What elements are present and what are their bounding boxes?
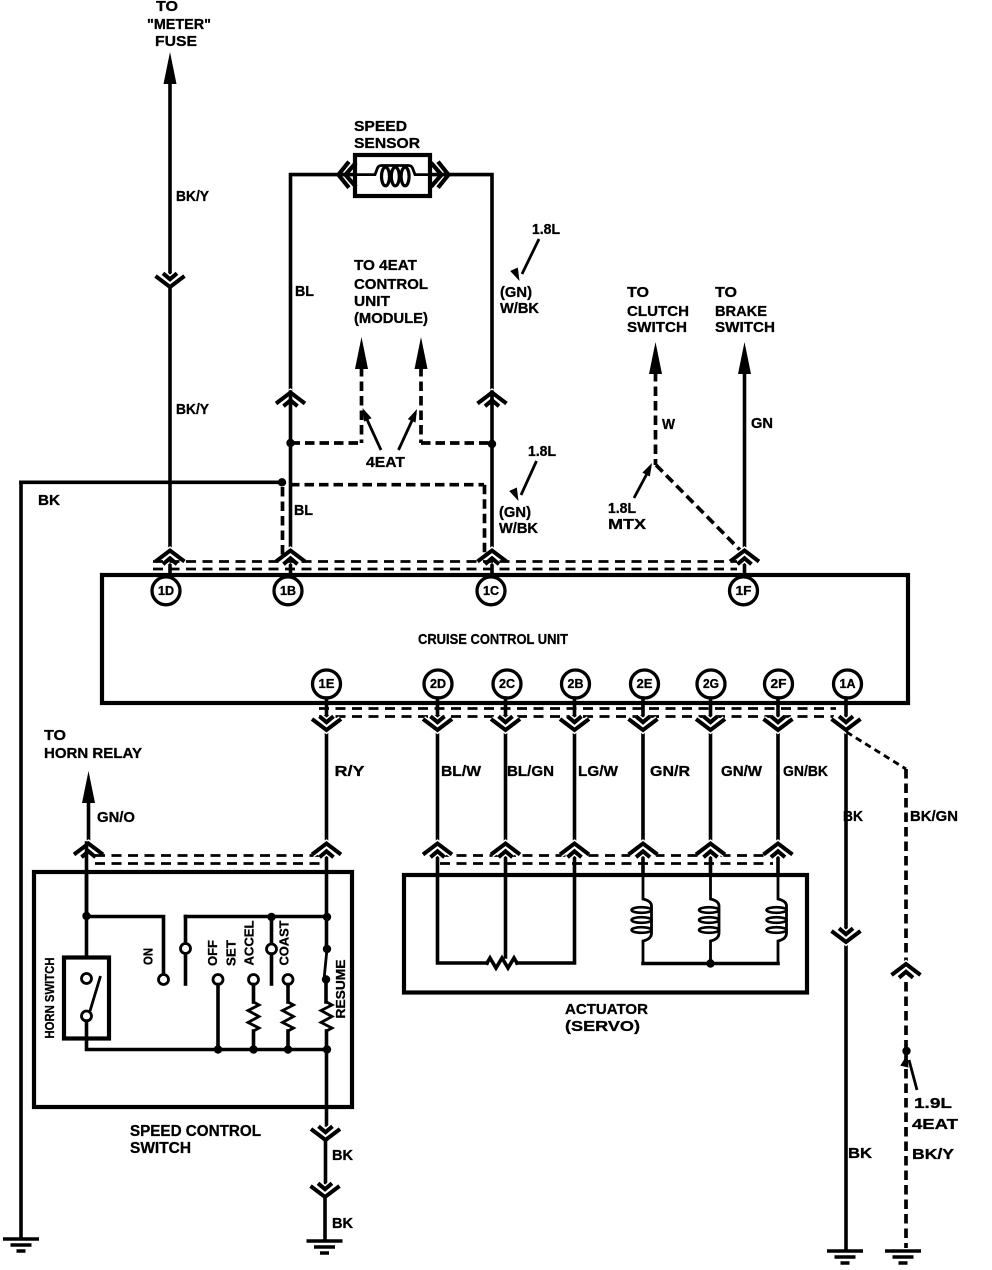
wire GN — [743, 372, 747, 576]
leader arrow MTX — [634, 461, 656, 498]
svg-text:1D: 1D — [158, 584, 174, 598]
value label BL lower — [294, 502, 313, 519]
svg-text:BL/W: BL/W — [441, 763, 482, 780]
value label GN/W — [721, 763, 763, 780]
svg-text:BK/Y: BK/Y — [176, 188, 209, 205]
contact COAST — [283, 975, 293, 985]
svg-text:2G: 2G — [703, 677, 719, 691]
wire horn into switch box — [85, 843, 89, 916]
pin 2D — [424, 670, 452, 698]
value label BK right — [843, 808, 863, 825]
connector chevron up GN/R — [629, 844, 658, 858]
solenoid coil 1 — [632, 875, 652, 964]
resistor RESUME — [321, 980, 332, 1050]
svg-text:HORN SWITCH: HORN SWITCH — [42, 958, 57, 1039]
svg-text:(SERVO): (SERVO) — [565, 1018, 640, 1035]
wire BL lower to pin 1B — [289, 392, 293, 576]
svg-text:ON: ON — [141, 948, 156, 965]
leader arrow 1.8L lower — [509, 461, 536, 503]
dashed harness top horizontal — [290, 483, 484, 487]
label CRUISE CONTROL UNIT — [418, 631, 568, 648]
connector chevron up horn — [74, 844, 103, 858]
value label BK 2 — [332, 1215, 353, 1232]
connector chevron up at pin 1C — [478, 551, 507, 565]
label SPEED SENSOR — [354, 118, 420, 152]
wire BK out of switch box — [325, 1050, 329, 1126]
label SPEED CONTROL SWITCH — [130, 1123, 261, 1157]
svg-text:ACCEL: ACCEL — [242, 920, 257, 965]
svg-text:TO: TO — [44, 727, 66, 744]
label COAST — [277, 920, 292, 965]
svg-text:1.8L: 1.8L — [532, 221, 560, 238]
svg-text:(MODULE): (MODULE) — [354, 310, 428, 327]
resistor potentiometer — [487, 958, 517, 968]
wire LG/W — [573, 698, 577, 875]
svg-text:GN/BK: GN/BK — [783, 763, 828, 780]
value label GN/O — [97, 809, 135, 826]
svg-text:BK/Y: BK/Y — [176, 401, 209, 418]
dashed wire W — [656, 372, 742, 551]
connector chevron down on BK/Y wire — [156, 273, 185, 287]
value label GN/R — [650, 763, 690, 780]
svg-text:TO: TO — [715, 284, 737, 301]
svg-text:TO: TO — [156, 0, 178, 15]
svg-text:SPEED CONTROL: SPEED CONTROL — [130, 1123, 261, 1140]
connector chevron up GN/W — [696, 844, 725, 858]
svg-text:1C: 1C — [483, 584, 499, 598]
svg-text:BK/Y: BK/Y — [912, 1146, 954, 1163]
svg-text:COAST: COAST — [277, 920, 292, 965]
wire OFF to bus — [216, 985, 220, 1050]
connector chevron up at pin 1D — [156, 551, 185, 565]
junction solenoid bus — [706, 959, 714, 967]
svg-text:BK: BK — [848, 1145, 872, 1162]
leader arrow 1.8L upper — [510, 239, 539, 283]
svg-text:ACTUATOR: ACTUATOR — [565, 1001, 648, 1018]
junction bus RESUME — [323, 1045, 331, 1053]
ground BK/GN — [885, 1251, 921, 1263]
harness dashed band below cruise unit — [319, 709, 836, 717]
svg-text:SET: SET — [224, 940, 239, 966]
wire BK right — [844, 698, 848, 1250]
contact ACCEL — [267, 917, 277, 984]
value label BL left wire — [295, 283, 314, 300]
svg-text:GN/R: GN/R — [650, 763, 690, 780]
value label BK/Y — [176, 188, 209, 205]
svg-text:CONTROL: CONTROL — [354, 276, 428, 293]
svg-text:(GN): (GN) — [500, 284, 532, 301]
svg-text:1F: 1F — [736, 584, 752, 598]
label TO HORN RELAY — [44, 727, 142, 762]
label BK left — [38, 492, 60, 509]
svg-text:OFF: OFF — [205, 940, 220, 966]
harness dashed band above actuator — [440, 856, 773, 864]
junction ACCEL top — [267, 913, 275, 921]
pin 2B — [562, 670, 590, 698]
wire 2D inside — [438, 875, 488, 963]
pin 2C — [493, 670, 521, 698]
value label GN/BK — [783, 763, 828, 780]
svg-text:BL: BL — [295, 283, 314, 300]
pin 2F — [765, 670, 793, 698]
resume switch contacts — [322, 945, 331, 984]
solenoid coil 2 — [699, 875, 719, 964]
arrowhead to clutch switch — [649, 342, 662, 374]
svg-text:SWITCH: SWITCH — [715, 319, 775, 336]
svg-text:R/Y: R/Y — [335, 763, 365, 780]
label RESUME — [333, 959, 348, 1018]
svg-text:1.8L: 1.8L — [608, 500, 636, 517]
ground left — [3, 1239, 39, 1251]
junction on BK/GN — [902, 1047, 910, 1055]
value label LG/W — [578, 763, 619, 780]
dashed diagonal from 1A — [847, 732, 907, 769]
connector chevron down pin 2B — [560, 716, 589, 730]
wiper contact — [181, 917, 191, 985]
svg-text:2D: 2D — [430, 677, 446, 691]
value label BL/W — [441, 763, 482, 780]
wire GN/W — [709, 698, 713, 875]
wire BK mid — [324, 1140, 328, 1183]
connector chevron left of sensor — [338, 162, 356, 188]
svg-text:BRAKE: BRAKE — [715, 303, 767, 320]
horn switch box — [64, 958, 109, 1039]
svg-text:W/BK: W/BK — [500, 300, 539, 317]
harness dashed band top — [153, 562, 737, 570]
connector chevron up LG/W — [560, 844, 589, 858]
connector chevron right of sensor — [431, 162, 449, 188]
label 1.8L lower — [528, 443, 556, 460]
label TO "METER" FUSE — [147, 0, 211, 50]
label (GN) W/BK lower — [499, 504, 538, 537]
svg-text:CLUTCH: CLUTCH — [627, 303, 689, 320]
svg-text:MTX: MTX — [608, 516, 646, 533]
svg-text:"METER": "METER" — [147, 16, 211, 33]
connector chevron up on BK/GN — [892, 964, 921, 978]
svg-text:SWITCH: SWITCH — [130, 1140, 191, 1157]
dashed wire 4EAT horizontal left — [291, 441, 362, 445]
wire BK to ground — [323, 1197, 327, 1240]
resistor SET — [248, 985, 259, 1050]
arrowhead 4EAT right — [415, 337, 428, 369]
dashed wire 4EAT left — [360, 367, 364, 443]
connector chevron up at pin 1F — [730, 551, 759, 565]
svg-text:1B: 1B — [280, 584, 296, 598]
svg-text:SPEED: SPEED — [354, 118, 407, 135]
resistor COAST — [283, 985, 294, 1050]
leader arrow 4EAT left — [359, 406, 381, 450]
wire horn to bus — [87, 1021, 328, 1050]
dashed wire 4EAT right — [419, 367, 423, 443]
svg-text:(GN): (GN) — [499, 504, 531, 521]
svg-text:1A: 1A — [840, 677, 856, 691]
label HORN SWITCH — [42, 958, 57, 1039]
wire W/BK lower to pin 1C — [490, 392, 494, 576]
svg-text:FUSE: FUSE — [155, 33, 197, 50]
svg-text:SENSOR: SENSOR — [354, 135, 420, 152]
svg-text:1.9L: 1.9L — [914, 1095, 952, 1112]
wire sensor left top — [291, 175, 356, 390]
junction bus SET — [249, 1045, 257, 1053]
value label BK/Y — [176, 401, 209, 418]
connector chevron up on BL wire — [276, 393, 305, 407]
pin 1D — [152, 576, 180, 605]
label 1.8L MTX — [608, 500, 646, 533]
wire BL/GN — [504, 698, 508, 875]
svg-text:GN/O: GN/O — [97, 809, 135, 826]
svg-text:BK/GN: BK/GN — [910, 808, 958, 825]
wire BL/W — [436, 698, 440, 875]
ground BK right — [827, 1251, 863, 1263]
junction on BL wire — [286, 439, 294, 447]
pin 1B — [274, 577, 302, 605]
label OFF — [205, 940, 220, 966]
label 1.9L 4EAT — [912, 1095, 958, 1133]
label ACTUATOR (SERVO) — [565, 1001, 648, 1035]
wire BK/Y upper segment — [168, 80, 172, 277]
wire BK left vertical — [19, 482, 23, 1237]
connector chevron up on W/BK wire — [478, 393, 507, 407]
svg-text:GN: GN — [751, 415, 773, 432]
junction bus COAST — [284, 1045, 292, 1053]
svg-text:BL/GN: BL/GN — [507, 763, 554, 780]
arrowhead to meter fuse — [164, 52, 177, 84]
junction BK to harness — [278, 478, 286, 486]
wire GN/BK — [776, 698, 780, 875]
svg-text:W/BK: W/BK — [499, 520, 538, 537]
svg-text:GN/W: GN/W — [721, 763, 763, 780]
dashed wire BK/GN lower — [904, 982, 908, 1248]
arrowhead 4EAT left — [355, 337, 368, 369]
label SET — [224, 940, 239, 966]
wire top bus 1 — [87, 917, 164, 975]
svg-text:2C: 2C — [499, 677, 515, 691]
junction horn top — [82, 912, 90, 920]
wire R/Y inside box — [325, 872, 329, 949]
svg-text:BK: BK — [38, 492, 60, 509]
dashed harness left vertical — [281, 487, 285, 556]
dashed harness right vertical — [483, 485, 487, 556]
svg-text:TO 4EAT: TO 4EAT — [354, 257, 417, 274]
pin 1A — [834, 670, 862, 698]
speed sensor coil — [357, 166, 428, 186]
leader arrow 4EAT right — [399, 407, 421, 450]
svg-text:LG/W: LG/W — [578, 763, 619, 780]
pin 1F — [730, 577, 758, 605]
dashed wire 4EAT horizontal right — [421, 441, 492, 445]
value label BK/GN — [910, 808, 958, 825]
pin 1C — [477, 577, 505, 605]
svg-text:UNIT: UNIT — [354, 293, 390, 310]
wire sensor right top — [430, 175, 492, 390]
connector chevron down pin 1A — [832, 716, 861, 730]
connector chevron down pin 2C — [491, 716, 520, 730]
pin 2G — [697, 670, 725, 698]
ground switch — [307, 1241, 343, 1253]
horn switch contacts — [82, 974, 101, 1022]
wire R/Y — [325, 698, 329, 872]
svg-text:HORN RELAY: HORN RELAY — [44, 745, 142, 762]
wire 2C wiper — [504, 875, 508, 957]
svg-text:BK: BK — [332, 1215, 353, 1232]
leader arrow 1.9L — [900, 1053, 917, 1090]
label ON — [141, 948, 156, 965]
arrowhead to brake switch — [738, 342, 751, 374]
connector chevron down BK 2 — [311, 1183, 340, 1197]
pin 1E — [313, 670, 341, 698]
label TO BRAKE SWITCH — [715, 284, 775, 336]
junction on W/BK wire — [488, 440, 496, 448]
label TO CLUTCH SWITCH — [627, 284, 689, 336]
svg-text:BK: BK — [332, 1147, 353, 1164]
dashed wire BK/GN vertical — [904, 769, 908, 962]
connector chevron down pin 1E — [312, 716, 341, 730]
value label BL/GN — [507, 763, 554, 780]
harness dashed band above switch box — [95, 856, 320, 864]
value label BK bottom — [848, 1145, 872, 1162]
svg-text:1E: 1E — [319, 677, 335, 691]
junction R/Y top — [323, 913, 331, 921]
svg-text:4EAT: 4EAT — [366, 454, 405, 471]
arrowhead to horn relay — [82, 771, 95, 803]
svg-text:CRUISE CONTROL UNIT: CRUISE CONTROL UNIT — [418, 631, 568, 648]
svg-text:W: W — [662, 416, 676, 433]
connector chevron down BK 1 — [311, 1126, 340, 1140]
svg-text:TO: TO — [627, 284, 649, 301]
connector chevron up at pin 1B — [276, 551, 305, 565]
connector chevron up BL/GN — [491, 844, 520, 858]
label (GN) W/BK upper — [500, 284, 539, 317]
svg-text:2B: 2B — [568, 677, 584, 691]
connector chevron down on BK right — [832, 928, 861, 942]
connector chevron up GN/BK — [764, 844, 793, 858]
contact SET — [249, 975, 259, 985]
contact OFF — [213, 975, 223, 985]
label 1.8L upper — [532, 221, 560, 238]
wire GN/O — [87, 800, 91, 840]
svg-text:BK: BK — [843, 808, 863, 825]
junction bus OFF — [214, 1045, 222, 1053]
value label W — [662, 416, 676, 433]
value label BK/Y bottom — [912, 1146, 954, 1163]
wire BK horizontal — [21, 480, 282, 484]
contact ON — [159, 975, 169, 985]
cruise control unit box — [102, 575, 908, 703]
solenoid coil 3 — [767, 875, 787, 964]
wire BK/Y lower segment — [168, 288, 172, 576]
connector chevron down pin 2E — [629, 716, 658, 730]
svg-text:4EAT: 4EAT — [912, 1116, 958, 1133]
wire to 2B — [517, 875, 575, 963]
connector chevron down pin 2D — [423, 716, 452, 730]
wire GN/R — [641, 698, 645, 875]
connector chevron down pin 2F — [764, 716, 793, 730]
label ACCEL — [242, 920, 257, 965]
svg-text:2E: 2E — [637, 677, 653, 691]
label 4EAT — [366, 454, 405, 471]
connector chevron up BL/W — [423, 844, 452, 858]
label TO 4EAT CONTROL UNIT (MODULE) — [354, 257, 428, 327]
svg-text:RESUME: RESUME — [333, 959, 348, 1018]
svg-text:1.8L: 1.8L — [528, 443, 556, 460]
connector chevron up R/Y — [312, 844, 341, 858]
speed control switch box — [34, 872, 352, 1107]
value label R/Y — [335, 763, 365, 780]
value label GN — [751, 415, 773, 432]
speed sensor box — [355, 155, 430, 196]
wire horn inside box — [85, 872, 89, 957]
svg-text:SWITCH: SWITCH — [627, 319, 687, 336]
svg-text:BL: BL — [294, 502, 313, 519]
value label BK — [332, 1147, 353, 1164]
svg-text:2F: 2F — [771, 677, 787, 691]
pin 2E — [631, 670, 659, 698]
actuator box — [404, 875, 807, 993]
connector chevron down pin 2G — [696, 716, 725, 730]
solenoid common bus — [643, 962, 778, 966]
wire top bus 2 — [186, 915, 328, 919]
